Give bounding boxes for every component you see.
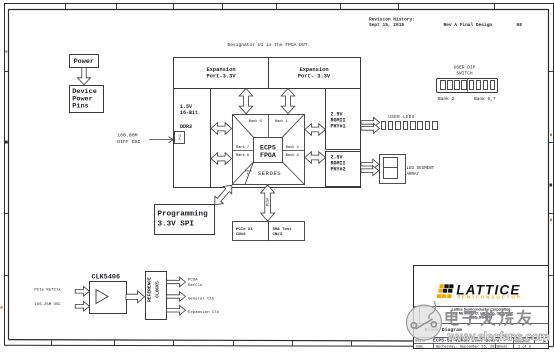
svg-text:PCSA: PCSA: [188, 279, 198, 283]
svg-text:Power: Power: [74, 58, 94, 66]
svg-text:16-Bit: 16-Bit: [180, 110, 198, 116]
svg-text:Expansion: Expansion: [206, 67, 235, 73]
svg-text:Expansion: Expansion: [299, 67, 328, 73]
svg-text:SWITCH: SWITCH: [456, 70, 473, 76]
svg-text:Bank 2: Bank 2: [286, 145, 299, 150]
svg-text:Bank 1: Bank 1: [275, 119, 288, 124]
svg-text:SMA Test: SMA Test: [273, 228, 293, 232]
svg-text:Pins: Pins: [72, 103, 88, 111]
svg-text:PCIe X1: PCIe X1: [236, 228, 253, 232]
svg-text:Revision History:: Revision History:: [369, 16, 415, 22]
svg-text:FPGA: FPGA: [260, 152, 276, 159]
svg-text:Designator U1 is the FPGA DUT.: Designator U1 is the FPGA DUT.: [228, 42, 311, 48]
svg-text:Port-3.3V: Port-3.3V: [206, 73, 236, 79]
svg-text:Programming: Programming: [158, 211, 209, 219]
svg-text:CN#0: CN#0: [236, 233, 246, 237]
svg-text:Bank 6: Bank 6: [236, 153, 249, 158]
svg-text:CLK5406: CLK5406: [92, 274, 121, 282]
svg-text:Sheet: Sheet: [498, 344, 507, 348]
svg-text:USER DIP: USER DIP: [454, 64, 476, 70]
svg-text:CN#3: CN#3: [273, 233, 283, 237]
svg-text:General Clk: General Clk: [188, 296, 215, 301]
svg-text:SERDES: SERDES: [258, 170, 281, 177]
svg-text:3.3V SPI: 3.3V SPI: [158, 221, 194, 229]
svg-text:www.elecfans.com: www.elecfans.com: [447, 330, 550, 344]
svg-text:Port- 3.3V: Port- 3.3V: [298, 73, 331, 79]
svg-text:Bank 6,7: Bank 6,7: [474, 96, 496, 102]
svg-text:USER LEDS: USER LEDS: [388, 116, 414, 120]
svg-text:RefClk: RefClk: [188, 283, 203, 288]
svg-text:Bank 3: Bank 3: [286, 153, 299, 158]
svg-text:08: 08: [517, 22, 523, 28]
svg-text:REFERENCE: REFERENCE: [147, 277, 153, 302]
svg-text:PCIe RefClk: PCIe RefClk: [34, 287, 61, 292]
svg-text:PLL: PLL: [178, 134, 182, 140]
svg-text:Bank 7: Bank 7: [236, 145, 249, 150]
svg-text:1 of 8: 1 of 8: [518, 345, 531, 350]
svg-text:DDR3: DDR3: [180, 124, 192, 130]
svg-text:156.25M OSC: 156.25M OSC: [34, 303, 61, 307]
svg-text:PHY#1: PHY#1: [331, 124, 346, 130]
svg-text:100.00M: 100.00M: [117, 132, 137, 138]
svg-text:SEMICONDUCTOR.: SEMICONDUCTOR.: [457, 294, 525, 299]
svg-text:Rev A Final Design: Rev A Final Design: [444, 22, 493, 28]
svg-text:PCSA: PCSA: [266, 197, 270, 206]
svg-text:Bank 0: Bank 0: [249, 119, 262, 124]
svg-text:PHY#2: PHY#2: [331, 167, 346, 173]
svg-text:CLOCKS: CLOCKS: [155, 281, 161, 298]
svg-text:LED SEGMENT: LED SEGMENT: [407, 167, 435, 171]
svg-text:8: 8: [247, 173, 249, 176]
svg-text:Expansion Clk: Expansion Clk: [188, 310, 220, 315]
svg-text:Sept 15, 2015: Sept 15, 2015: [369, 22, 404, 28]
svg-text:ECP5: ECP5: [260, 144, 276, 151]
svg-text:Date:: Date:: [416, 344, 424, 348]
svg-text:Bank 2: Bank 2: [438, 96, 455, 102]
svg-text:ARRAY: ARRAY: [407, 173, 420, 177]
svg-text:DIFF OSC: DIFF OSC: [117, 139, 140, 145]
svg-text:Wednesday, September 16, 2015: Wednesday, September 16, 2015: [436, 345, 499, 350]
